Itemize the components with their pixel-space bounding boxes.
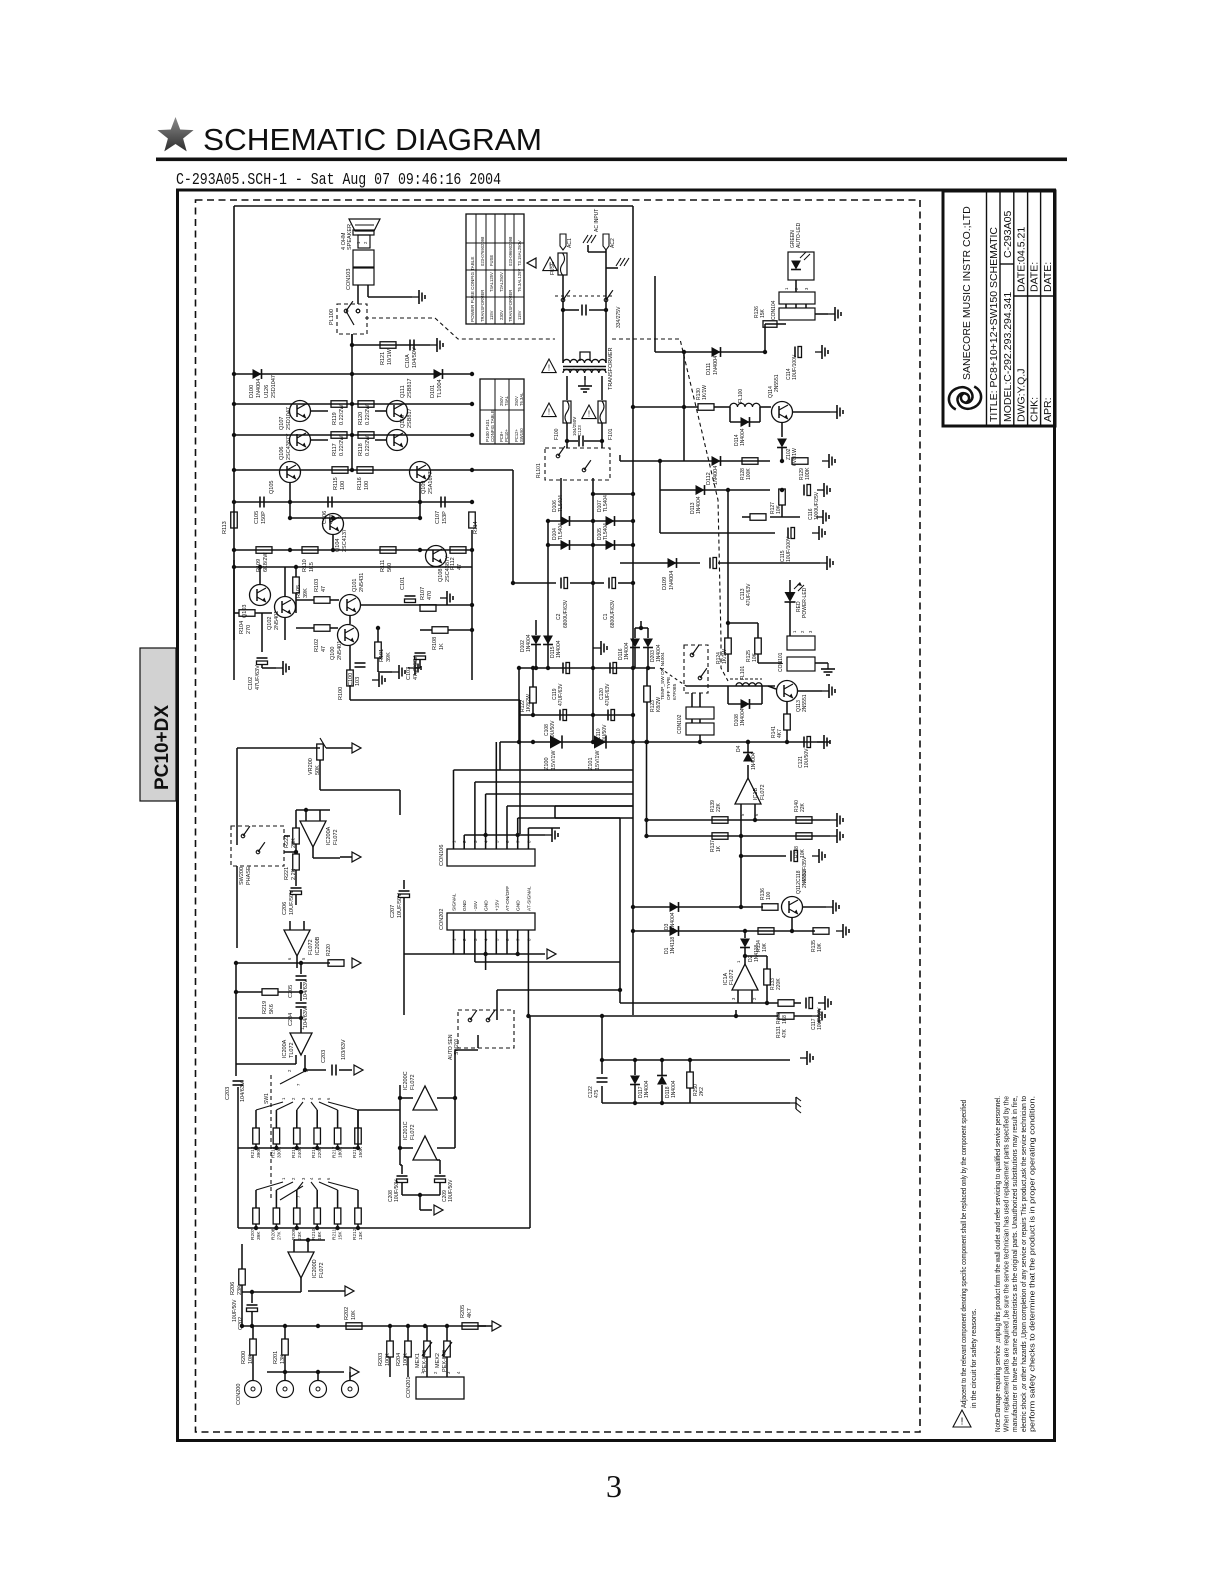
diode D3 1N4004 [633, 906, 763, 908]
ground C114 [815, 351, 822, 353]
svg-text:1N4004: 1N4004 [671, 1080, 677, 1098]
svg-text:IC1B: IC1B [753, 787, 759, 800]
capacitor C206 10UF/50V [291, 887, 302, 889]
svg-text:Q105: Q105 [269, 481, 275, 494]
svg-text:1N4004: 1N4004 [644, 1080, 650, 1098]
svg-text:47UF/63V: 47UF/63V [746, 583, 752, 606]
connector CON104 [779, 292, 815, 304]
resistor R202 10K [346, 1323, 362, 1330]
table P100 P101 CONFIG [480, 379, 524, 444]
svg-text:2N5551: 2N5551 [802, 694, 808, 712]
svg-text:+15V: +15V [494, 899, 500, 911]
resistor R124 1K/1W [725, 638, 732, 654]
ground mute top [800, 1057, 807, 1059]
diode D108 1N4004 [727, 686, 729, 704]
dashed link TEMP [660, 668, 686, 686]
svg-text:15K: 15K [760, 308, 766, 318]
svg-text:PHASE: PHASE [246, 866, 252, 885]
relay PL100 [337, 304, 367, 334]
wire bundle CON106 [453, 770, 455, 849]
svg-text:CON200: CON200 [236, 1384, 242, 1405]
resistor R200 10K [250, 1339, 257, 1355]
resistor R201 13K [282, 1339, 289, 1355]
svg-text:D4: D4 [736, 745, 742, 752]
svg-text:220K: 220K [776, 978, 782, 990]
svg-text:1N4004: 1N4004 [696, 496, 702, 514]
resistor R203 100K [387, 1341, 394, 1357]
PC10+DX model tab [140, 648, 176, 801]
svg-text:22K: 22K [716, 802, 722, 812]
capacitor C209 10UF/50V [435, 1175, 446, 1177]
junction dots caps row [288, 500, 292, 504]
arrow IC200B out [352, 958, 361, 968]
svg-text:R120: R120 [358, 412, 364, 425]
resistor R109 6K8 [256, 547, 272, 554]
wire rectifier [566, 423, 568, 448]
svg-text:18K: 18K [317, 1231, 323, 1240]
svg-text:0.22/2W: 0.22/2W [339, 435, 345, 456]
svg-text:47UF/63V: 47UF/63V [558, 683, 564, 706]
svg-text:DATE:: DATE: [1029, 262, 1041, 292]
wire tone to auto-sense [529, 1016, 531, 1228]
svg-text:T4AL: T4AL [504, 395, 509, 406]
svg-text:1N4004: 1N4004 [556, 640, 562, 658]
diode D101 TL1004 [434, 369, 443, 379]
svg-text:PL100: PL100 [329, 309, 335, 325]
wire bridge verticals [547, 521, 549, 668]
svg-text:R206: R206 [230, 1282, 236, 1295]
capacitor C106 473 [327, 497, 329, 508]
wire C204 to opamp [238, 1017, 301, 1019]
transistor Q112 2N5551 [782, 897, 803, 918]
svg-text:C103: C103 [406, 667, 412, 680]
wire Q112 emitter [791, 918, 793, 931]
svg-text:Z100: Z100 [544, 757, 550, 770]
wire left rail y668-742 [518, 668, 520, 742]
resistor R125 10K [755, 638, 762, 654]
svg-text:C102: C102 [248, 677, 254, 690]
svg-text:R110: R110 [302, 559, 308, 572]
svg-text:334/275V: 334/275V [616, 306, 622, 328]
svg-text:!: ! [548, 364, 550, 373]
resistor R106 470 [420, 605, 436, 612]
potentiometer VR200 50K [317, 744, 324, 760]
svg-text:1N4004: 1N4004 [713, 466, 719, 485]
svg-text:PC10+DX: PC10+DX [152, 705, 173, 790]
capacitor C110 10U/50V [607, 710, 609, 721]
svg-text:Q106: Q106 [279, 447, 285, 460]
svg-text:Q108: Q108 [438, 569, 444, 582]
svg-text:C1: C1 [603, 613, 609, 620]
resistor R120 0.22/2W [358, 401, 374, 408]
svg-text:!: ! [549, 262, 551, 271]
transistor Q102 2N5401 [275, 597, 296, 618]
svg-text:T4AL125V: T4AL125V [489, 272, 494, 292]
resistor R136 100 [762, 904, 778, 911]
svg-text:104/63V: 104/63V [240, 1081, 246, 1102]
diode D106 TL5404 h [561, 516, 570, 526]
svg-text:APR:: APR: [1042, 397, 1054, 422]
plug AC1 [560, 234, 566, 250]
svg-text:104/63V: 104/63V [303, 1007, 309, 1028]
svg-text:2SB817: 2SB817 [407, 408, 413, 428]
wire D113 row [660, 489, 770, 491]
ground Q113 [798, 690, 822, 692]
svg-text:0.22/2W: 0.22/2W [365, 404, 371, 425]
title block frame [943, 191, 1055, 426]
dashed control wire PL100 [365, 318, 555, 339]
capacitor C105 150P [259, 497, 261, 508]
arrow input to preamp [492, 1321, 501, 1331]
svg-text:TRANSFORMER: TRANSFORMER [608, 348, 614, 391]
ground Q114 collector [793, 411, 830, 413]
wire rail y470 [234, 469, 472, 471]
svg-text:023-076902098: 023-076902098 [480, 236, 485, 266]
connector CON106 [447, 849, 535, 866]
capacitor C202A 104/63V [235, 1064, 237, 1076]
LED POWER-LED RED [785, 592, 796, 602]
transistor Q107 2SD1047 [290, 401, 311, 422]
capacitor C205 104/63V [296, 975, 307, 977]
wire main B+ vertical [632, 206, 634, 1015]
svg-text:MODEL:C-292.293.294.341: MODEL:C-292.293.294.341 [1002, 292, 1014, 422]
diode D203 1N4004 [643, 639, 653, 648]
wire to CON104 [779, 323, 786, 325]
capacitor C117 10UF/50V [805, 998, 807, 1009]
resistor R141 4K7 [784, 714, 791, 730]
capacitor C202 10UF/50V [247, 1304, 258, 1306]
capacitor C1 6800UF/63V [593, 582, 604, 584]
svg-text:10/1W: 10/1W [387, 348, 393, 365]
ground CON104 [815, 313, 828, 315]
wire deck join [237, 1148, 239, 1228]
outer sheet border [178, 190, 1055, 1441]
svg-text:FL072: FL072 [760, 784, 766, 800]
zener Z100 15V/1W [550, 735, 562, 748]
company logo [949, 387, 981, 410]
svg-text:AC2: AC2 [610, 238, 616, 248]
capacitor C207 10UF/50V [399, 890, 410, 892]
transistor Q109 2SA1677 [410, 462, 431, 483]
svg-text:IC200A: IC200A [282, 1039, 288, 1058]
wire rectifier row A [548, 520, 633, 522]
svg-text:C206: C206 [282, 902, 288, 915]
svg-text:Z101: Z101 [588, 757, 594, 770]
svg-text:104/63V: 104/63V [303, 979, 309, 1000]
svg-text:150P: 150P [261, 511, 267, 524]
svg-text:TITLE: PC8+10+12+SW150 SCHEMAT: TITLE: PC8+10+12+SW150 SCHEMATIC [988, 227, 1000, 422]
svg-text:T6.3AL: T6.3AL [519, 392, 524, 406]
svg-text:R114: R114 [473, 521, 479, 534]
svg-text:TRANSFORMER: TRANSFORMER [508, 290, 513, 322]
svg-text:15V/1W: 15V/1W [551, 750, 557, 770]
wire filter row y668 [519, 667, 655, 669]
svg-text:0.22/2W: 0.22/2W [365, 435, 371, 456]
svg-text:1N4118: 1N4118 [670, 937, 676, 954]
svg-text:103: 103 [355, 677, 361, 686]
svg-text:2SC4137: 2SC4137 [342, 529, 348, 552]
resistor R126 15K [764, 324, 766, 352]
svg-text:2SA1677: 2SA1677 [428, 471, 434, 494]
svg-text:10UF/50V: 10UF/50V [289, 890, 295, 915]
diode D102 1N4004 [531, 636, 541, 645]
wire driver links [311, 410, 328, 412]
capacitor C121 10U/50V [803, 737, 805, 748]
wires LED section [727, 490, 729, 638]
svg-text:2SC4387Y: 2SC4387Y [286, 433, 292, 460]
svg-text:POWER FUSE CONFIG TABLE: POWER FUSE CONFIG TABLE [470, 257, 475, 322]
resistor R115 100 [332, 467, 348, 474]
svg-text:10K: 10K [800, 848, 806, 858]
svg-text:10K: 10K [817, 942, 823, 952]
wire IC1B input pins [740, 804, 742, 820]
title block sub-dividers [1000, 263, 1014, 265]
svg-text:RL101: RL101 [536, 463, 542, 478]
resistor R102 47 [314, 625, 330, 632]
safety warning triangle [953, 1410, 971, 1427]
svg-text:1N4004: 1N4004 [740, 428, 746, 446]
capacitor C100 103 [355, 662, 366, 664]
svg-text:67F085: 67F085 [672, 683, 678, 700]
svg-text:270: 270 [246, 625, 252, 634]
diode D100 1N4004 [253, 369, 262, 379]
svg-text:2K2: 2K2 [699, 1087, 705, 1096]
svg-text:!: ! [588, 410, 590, 419]
svg-text:F100: F100 [554, 428, 560, 440]
diode D116 1N4004 [630, 639, 640, 648]
svg-text:6V8/1W: 6V8/1W [792, 448, 798, 466]
arrow CON202 out [547, 949, 556, 959]
ground C101 [440, 597, 447, 599]
header rule [156, 158, 1067, 162]
warning triangle F100 [542, 403, 556, 417]
wire rectifier row B [546, 544, 633, 546]
op-amp IC1B FL072 [735, 778, 761, 804]
svg-text:47UF/63V: 47UF/63V [255, 665, 261, 690]
resistor R103 47 [314, 597, 330, 604]
ground R101 [392, 671, 399, 673]
wires phase section [284, 835, 290, 837]
svg-text:FL072: FL072 [308, 939, 314, 955]
connector CON101 [787, 636, 815, 650]
fuse F101 [598, 401, 606, 423]
LED GREEN AUTO-LED [788, 252, 814, 280]
svg-text:FL101: FL101 [740, 666, 746, 680]
diode D114 1N4004 [729, 407, 731, 422]
op-amp IC1A FL072 [732, 964, 758, 990]
resistor R111 560 [380, 547, 396, 554]
svg-text:1K: 1K [716, 845, 722, 852]
svg-text:FL072: FL072 [729, 969, 735, 985]
svg-text:Q109: Q109 [421, 481, 427, 494]
svg-text:47K: 47K [782, 1028, 788, 1038]
resistor R112 47 [450, 547, 466, 554]
plug AC2 [603, 234, 609, 250]
wire zener rail to preamp [499, 742, 501, 770]
svg-text:R204: R204 [396, 1353, 402, 1366]
capacitor C108 10U/50V [559, 710, 561, 721]
svg-text:AT-ON/OFF: AT-ON/OFF [505, 886, 511, 911]
svg-text:R201: R201 [273, 1351, 279, 1364]
resistor R108 1K [432, 627, 448, 634]
svg-text:R221: R221 [284, 867, 290, 880]
connector CON103 [353, 250, 374, 267]
transformer secondary [563, 369, 606, 373]
transistor Q114 2N5551 [772, 402, 793, 423]
resistor R114 220 vertical [469, 512, 476, 528]
wire CON106 gnd tie [464, 834, 545, 836]
svg-text:R222: R222 [284, 835, 290, 848]
op-amp IC200C FL072 [413, 1086, 437, 1110]
capacitor C116 1000UF/25V [803, 485, 805, 496]
svg-text:IC200A: IC200A [326, 826, 332, 845]
diode D115 1N4004 [543, 636, 553, 645]
capacitor C103 47uF/63V [415, 652, 426, 654]
filter chassis stub 2 [606, 267, 618, 269]
chassis ground mute [790, 1102, 796, 1104]
wire opamp pin3 out [304, 1055, 306, 1070]
svg-text:2SB817: 2SB817 [407, 378, 413, 398]
zener Z101 15V/1W [594, 735, 606, 748]
svg-text:10UF/50V: 10UF/50V [397, 893, 403, 918]
svg-text:TRANSFORMER: TRANSFORMER [480, 290, 485, 322]
resistor R117 0.22/2W [331, 432, 347, 439]
svg-text:47UF/63V: 47UF/63V [605, 683, 611, 706]
svg-text:DWG:Y.Q.J: DWG:Y.Q.J [1016, 369, 1028, 422]
resistor R132 1K8 [620, 1002, 778, 1004]
resistor R121 10/1W [352, 344, 430, 346]
wire relay to output rail [351, 334, 353, 374]
svg-text:115V: 115V [517, 310, 522, 320]
svg-text:-15V: -15V [473, 900, 479, 911]
svg-text:perform safety checks to deter: perform safety checks to determine that … [1027, 1096, 1036, 1432]
svg-text:100: 100 [364, 481, 370, 490]
svg-text:TL1004: TL1004 [437, 379, 443, 398]
svg-text:R116: R116 [357, 477, 363, 490]
fuse F100 [563, 401, 571, 423]
svg-text:IC200D: IC200D [312, 1259, 318, 1278]
svg-text:R205: R205 [460, 1305, 466, 1318]
wire input bus [242, 1325, 486, 1327]
resistor R206 23K [239, 1269, 246, 1285]
svg-text:1N4004: 1N4004 [624, 642, 630, 660]
resistor R128 100K [742, 458, 758, 465]
resistor R140 22K [796, 817, 812, 824]
svg-text:1N4004: 1N4004 [751, 752, 757, 770]
wire VR200 row [237, 747, 320, 749]
wire CON202 tie [404, 953, 545, 955]
capacitor C102 47uF/63V [257, 657, 268, 659]
jack sockets CON200 [245, 1381, 262, 1398]
capacitor C115 10UF/100V [659, 490, 661, 533]
svg-text:C207: C207 [390, 905, 396, 918]
switch SW1 wiper B [280, 1186, 303, 1200]
op-amp IC201C FL072 [413, 1136, 437, 1160]
svg-text:1K: 1K [439, 643, 445, 650]
ground D109 row [820, 562, 827, 564]
wire AC lines [562, 275, 564, 348]
svg-text:R220: R220 [326, 944, 332, 956]
svg-text:15V/1W: 15V/1W [595, 750, 601, 770]
ground C102 [276, 667, 283, 669]
dashed page border [196, 200, 921, 1432]
wire con201 pins [389, 1375, 391, 1377]
transistor Q113 2N5551 [777, 681, 798, 702]
svg-text:2N5431: 2N5431 [359, 573, 365, 592]
wire bank2 rail [238, 1227, 530, 1229]
warning triangle fuses [582, 405, 596, 419]
diode D2 1N4118 [743, 929, 747, 933]
wire CON202 outputs [474, 954, 476, 962]
svg-text:FL072: FL072 [333, 829, 339, 845]
ground speaker return [412, 296, 419, 298]
svg-text:FL072: FL072 [319, 1262, 325, 1278]
table POWER FUSE CONFIG [466, 214, 524, 324]
connector CON201 [416, 1377, 464, 1399]
svg-text:R103: R103 [314, 579, 320, 592]
ground C117 [818, 1002, 825, 1004]
capacitor C2 6800UF/63V [513, 582, 556, 584]
wire IC1A pins [737, 990, 739, 1003]
ground row 517 [816, 516, 823, 518]
svg-text:MEX1: MEX1 [415, 1353, 421, 1368]
resistor R113 220 vertical [231, 512, 238, 528]
switch POWER dashed [555, 295, 612, 297]
svg-text:C107: C107 [435, 511, 441, 524]
svg-text:R107: R107 [420, 587, 426, 600]
capacitor C10A 104/50V [409, 340, 411, 351]
arrow phase out [352, 852, 361, 862]
transistor Q111 2SB817 [387, 401, 408, 422]
capacitor C208 10UF/50V [397, 1175, 408, 1177]
resistor R133 220K [745, 955, 767, 957]
svg-text:R118: R118 [358, 443, 364, 456]
zener Z102 6V8/1W [777, 439, 787, 448]
svg-text:IC201C: IC201C [403, 1121, 409, 1140]
svg-text:1N4004: 1N4004 [669, 571, 675, 590]
svg-text:2N5551: 2N5551 [774, 374, 780, 392]
svg-text:IC200B: IC200B [315, 936, 321, 955]
svg-text:2N5401: 2N5401 [274, 611, 280, 630]
connector CON102 [686, 707, 714, 719]
svg-text:0.22/2W: 0.22/2W [339, 404, 345, 425]
diode D104 TL5404 h [561, 540, 570, 550]
svg-text:R219: R219 [262, 1001, 268, 1014]
wire LED to CON101 [789, 602, 791, 636]
wire opamp pin2 feedback [295, 1055, 297, 1064]
svg-text:2SD1047: 2SD1047 [286, 407, 292, 430]
inductor FL100 [730, 403, 760, 407]
ground R131 [812, 1015, 819, 1017]
svg-text:4K7: 4K7 [777, 729, 783, 738]
diode D111 1N4004 [712, 347, 721, 357]
svg-text:PC10+: PC10+ [504, 429, 509, 442]
wire jack tops [252, 1372, 254, 1380]
wire D111 row [655, 351, 765, 353]
svg-text:T6.3AL125V: T6.3AL125V [517, 269, 522, 292]
svg-text:SANECORE MUSIC INSTR CO.;LTD: SANECORE MUSIC INSTR CO.;LTD [961, 206, 973, 380]
svg-text:C202: C202 [238, 1317, 244, 1330]
diode D109 1N4004 [620, 562, 700, 564]
svg-text:R121: R121 [380, 352, 386, 365]
arrow auto sense out [434, 1205, 443, 1215]
svg-text:100: 100 [766, 891, 772, 900]
svg-text:TEMP_SW ON N4004: TEMP_SW ON N4004 [660, 652, 666, 700]
svg-text:CHK:: CHK: [1029, 397, 1041, 422]
svg-text:104/50V: 104/50V [412, 347, 418, 368]
resistor R137 1K [647, 835, 797, 837]
svg-text:SIGNAL: SIGNAL [452, 893, 458, 911]
